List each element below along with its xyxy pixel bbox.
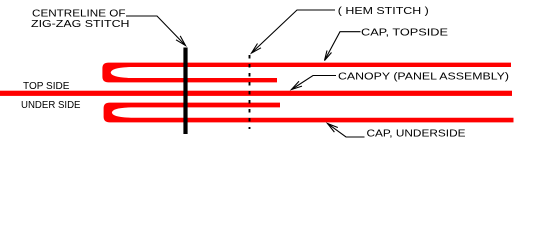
svg-text:ZIG-ZAG STITCH: ZIG-ZAG STITCH [31,18,130,30]
svg-text:TOP SIDE: TOP SIDE [23,80,70,92]
svg-text:CAP, UNDERSIDE: CAP, UNDERSIDE [367,128,466,140]
svg-text:UNDER SIDE: UNDER SIDE [21,99,81,111]
svg-text:( HEM STITCH ): ( HEM STITCH ) [338,5,429,17]
svg-text:CANOPY (PANEL ASSEMBLY): CANOPY (PANEL ASSEMBLY) [338,70,509,82]
svg-text:CAP, TOPSIDE: CAP, TOPSIDE [361,26,448,38]
